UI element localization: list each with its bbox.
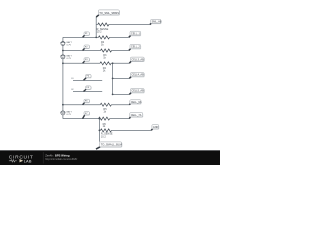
wire: row T1 horizontal — [63, 36, 129, 38]
resistor R5 (row T4) — [100, 103, 111, 106]
logo squiggle — [9, 160, 17, 162]
svg-text:CELL_1: CELL_1 — [131, 33, 141, 36]
svg-text:TO_SML_SBMS: TO_SML_SBMS — [99, 11, 119, 15]
junction at B3 drop — [99, 130, 101, 132]
wire: row T4 horizontal — [63, 104, 129, 106]
flag M6 (row T4 mid) — [83, 99, 90, 105]
wire: row R1row horizontal — [96, 24, 150, 26]
flag M7 (row T5 mid) — [83, 112, 90, 119]
svg-text:0.7V: 0.7V — [67, 114, 72, 116]
footer bar top edge highlight — [0, 150, 220, 152]
svg-text:10.2: 10.2 — [97, 30, 102, 33]
flag M3 (row T3 mid) — [83, 58, 90, 64]
wire: vertical drop row B3 to bottom flag — [98, 130, 100, 141]
wire: top bus vertical — [95, 17, 97, 37]
wire: left battery bus vertical — [62, 37, 64, 118]
wire: row T2 horizontal — [63, 50, 129, 52]
flag M4 (short row 1) — [84, 74, 92, 80]
flag F2 (row T2 end) — [129, 44, 141, 50]
svg-text:10.2: 10.2 — [101, 135, 106, 138]
flag F8 (row B3 end) — [151, 125, 159, 131]
resistor R3 (row T2) — [101, 49, 112, 52]
flag M1 (row T1 mid) — [83, 32, 90, 38]
svg-text:CELL_7A: CELL_7A — [131, 114, 142, 117]
junction at bus2/T3 — [112, 62, 114, 64]
battery V2 — [61, 55, 65, 59]
resistor R7 (row B3) — [100, 129, 111, 132]
junction at busL/T2 — [62, 50, 64, 52]
flag M5 (short row 2) — [84, 86, 92, 92]
wire: stub row to flag F5 — [113, 93, 130, 95]
svg-text:TO_SMALL_BLM: TO_SMALL_BLM — [101, 143, 123, 147]
flag FA (row R1 end) — [150, 19, 162, 24]
junction at busL/T3 — [62, 62, 64, 64]
svg-text:GND: GND — [153, 126, 159, 129]
resistor R4 (row T3) — [100, 62, 111, 65]
wire: row T5 horizontal — [63, 118, 129, 120]
junction at bus1/T1 — [95, 37, 97, 39]
flag M2 (row T2 mid) — [83, 45, 90, 51]
junction at bus2/F4 stub — [112, 78, 114, 80]
resistor R2 (row T1) — [98, 36, 109, 39]
junction at T5 drop — [99, 118, 101, 120]
flag F4 (stub row 2 end) — [129, 73, 144, 79]
wire: short row 2 — [73, 91, 102, 93]
wire: middle distribution bus vertical — [112, 63, 114, 94]
svg-text:CELL_6A: CELL_6A — [131, 101, 142, 104]
battery V3 — [61, 111, 65, 115]
logo op-amp triangle — [20, 159, 24, 162]
flag F7 (row T5 end) — [129, 113, 143, 119]
wire: vertical drop row T5 to row B3 — [98, 119, 100, 131]
svg-text:LAB: LAB — [24, 158, 32, 163]
svg-text:CELL4_AB: CELL4_AB — [131, 74, 144, 77]
junction at bus2/F5 stub — [112, 94, 114, 96]
flag TO bottom (net TO_SMALL_BLM) — [96, 142, 122, 149]
junction at busL/T4 — [62, 104, 64, 106]
svg-text:0.7V: 0.7V — [67, 45, 72, 47]
flag TO top (net TO_SML_SBMS) — [96, 10, 120, 17]
wire: row B3 horizontal — [99, 129, 151, 131]
wire: stub row to flag F4 — [113, 77, 130, 79]
svg-text:CELL5_AB: CELL5_AB — [131, 90, 144, 93]
svg-text:CELL3_AB: CELL3_AB — [131, 58, 144, 61]
flag F3 (row T3 end) — [129, 57, 144, 63]
flag F5 (stub row 3 end) — [129, 89, 144, 95]
battery V1 — [61, 42, 65, 46]
flag F1 (row T1 end) — [129, 31, 141, 37]
wire: row T3 horizontal — [63, 62, 129, 64]
footer separator — [42, 152, 44, 164]
svg-text:CELL_2: CELL_2 — [131, 46, 141, 49]
svg-text:0.7V: 0.7V — [67, 58, 72, 60]
wire: short row 1 — [73, 79, 102, 81]
svg-text:SML_AB: SML_AB — [152, 20, 162, 23]
footer bar — [0, 150, 220, 165]
svg-text:http://circuitlab.com/c/e6b8z: http://circuitlab.com/c/e6b8z — [45, 157, 78, 161]
resistor R1 (row R1row) — [98, 23, 109, 26]
resistor R6 (row T5) — [99, 117, 110, 120]
flag F6 (row T4 end) — [129, 100, 141, 105]
